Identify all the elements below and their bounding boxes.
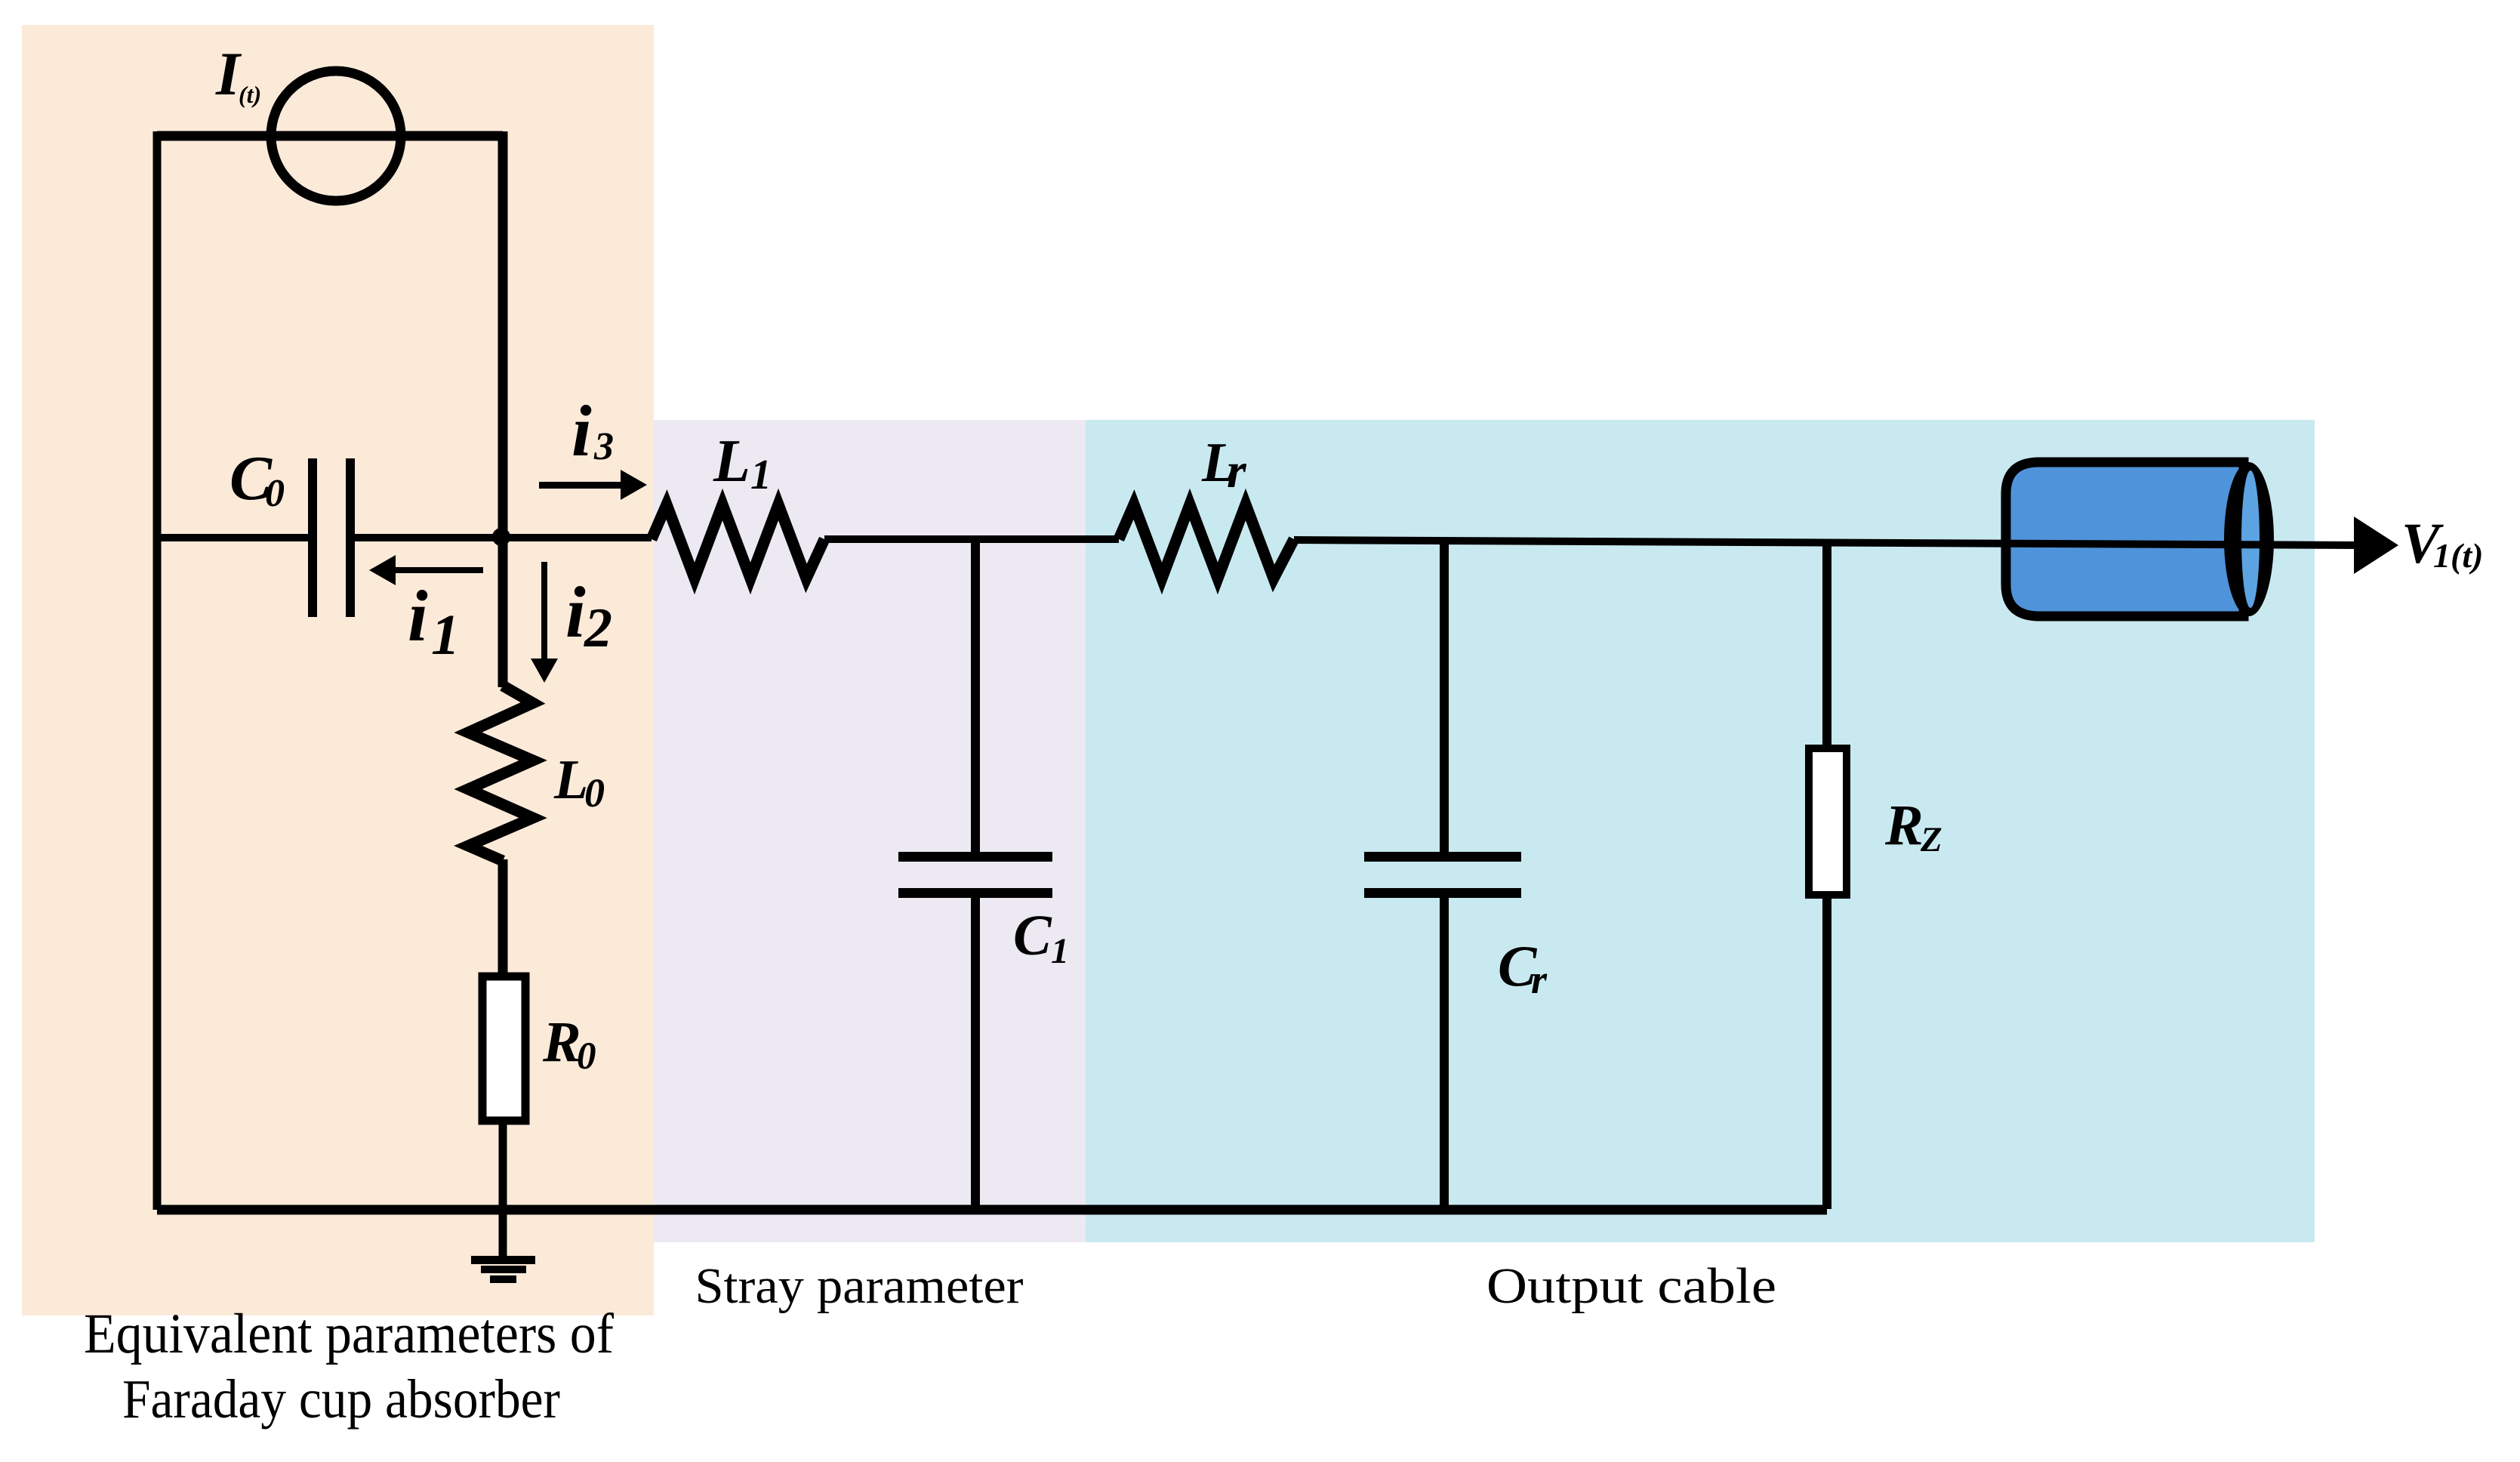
svg-text:L: L: [713, 428, 750, 495]
svg-text:Output cable: Output cable: [1486, 1258, 1776, 1314]
svg-text:i: i: [571, 390, 592, 471]
svg-text:Equivalent parameters of: Equivalent parameters of: [84, 1303, 614, 1365]
svg-text:C: C: [1013, 904, 1052, 967]
svg-text:Z: Z: [1920, 820, 1942, 859]
svg-text:L: L: [553, 749, 588, 811]
svg-text:1: 1: [750, 452, 772, 498]
svg-text:1: 1: [431, 603, 460, 667]
svg-text:R: R: [1884, 794, 1924, 857]
svg-text:2: 2: [584, 597, 612, 659]
svg-text:R: R: [542, 1010, 581, 1074]
svg-text:r: r: [1227, 443, 1247, 498]
svg-text:3: 3: [593, 425, 614, 468]
svg-text:1(t): 1(t): [2433, 536, 2483, 575]
svg-text:i: i: [408, 575, 428, 656]
svg-text:0: 0: [577, 1035, 596, 1078]
svg-text:Stray parameter: Stray parameter: [695, 1258, 1024, 1314]
svg-text:Faraday cup absorber: Faraday cup absorber: [122, 1368, 560, 1430]
svg-text:0: 0: [584, 770, 605, 816]
svg-text:i: i: [565, 572, 586, 652]
svg-text:1: 1: [1051, 931, 1069, 971]
svg-text:r: r: [1531, 957, 1548, 1002]
svg-text:0: 0: [265, 472, 285, 515]
svg-text:(t): (t): [239, 81, 261, 108]
